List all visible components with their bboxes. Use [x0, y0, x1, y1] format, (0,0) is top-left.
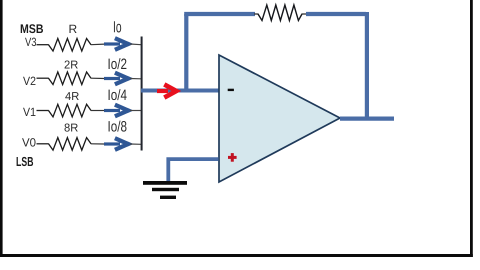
wire resistor 2R to arrow	[91, 77, 105, 79]
resistor R	[49, 39, 92, 52]
node V3	[25, 38, 36, 47]
node summing bus	[141, 37, 143, 151]
wire arrow to bus row1	[130, 43, 141, 46]
pin minus (inverting input)	[228, 89, 234, 91]
wire output	[340, 116, 394, 120]
border frame right	[470, 0, 473, 257]
wire feedback top right horizontal	[306, 12, 366, 16]
wire arrow to bus row2	[130, 78, 141, 80]
node V0	[22, 138, 36, 147]
wire V1 lead	[37, 110, 49, 112]
label MSB	[21, 24, 43, 33]
wire V2 lead	[37, 77, 49, 79]
value label 2R	[65, 60, 78, 68]
border frame left	[0, 0, 3, 257]
value label R	[69, 25, 76, 33]
wire resistor 8R to arrow	[91, 143, 105, 145]
wire arrow to bus row3	[130, 110, 141, 112]
pin plus (non-inverting input)	[228, 153, 237, 162]
wire bus to inverting input	[141, 89, 219, 93]
resistor 4R	[49, 104, 92, 117]
value label 8R	[64, 123, 77, 131]
label Io	[114, 21, 121, 32]
wire resistor R to arrow	[91, 43, 105, 46]
arrow summing current (red)	[157, 84, 176, 97]
op-amp U1	[219, 55, 340, 182]
arrow current Io/2	[104, 73, 128, 85]
wire feedback right vertical	[365, 12, 369, 119]
wire non-inverting input to ground	[168, 159, 218, 181]
wire V3 lead	[37, 44, 49, 46]
ground	[143, 181, 187, 199]
label LSB	[17, 157, 34, 166]
wire V0 lead	[37, 143, 49, 145]
wire feedback left vertical	[184, 14, 188, 91]
border frame bottom	[0, 254, 473, 257]
wire Rf right lead	[302, 13, 308, 15]
node V2	[23, 77, 35, 85]
resistor 2R	[49, 72, 92, 85]
resistor Rf	[258, 5, 302, 21]
label Io/2	[109, 58, 127, 69]
label Io/8	[109, 121, 127, 132]
arrow current Io	[104, 38, 128, 50]
arrow current Io/4	[104, 105, 128, 117]
label Io/4	[109, 89, 127, 100]
wire Rf left lead	[254, 13, 259, 15]
node V1	[23, 108, 35, 116]
wire resistor 4R to arrow	[91, 110, 105, 112]
resistor 8R	[49, 138, 92, 151]
arrow current Io/8	[104, 138, 128, 150]
wire arrow to bus row4	[130, 143, 141, 145]
wire feedback top left horizontal	[184, 12, 255, 16]
value label 4R	[65, 92, 79, 100]
